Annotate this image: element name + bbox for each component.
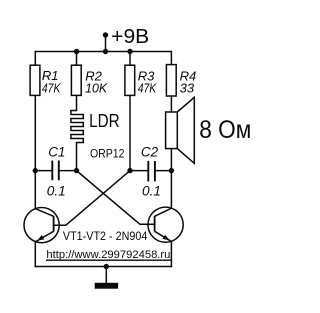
wire speaker bottom to node to VT2 collector — [170, 149, 172, 209]
svg-text:+9В: +9В — [111, 25, 149, 48]
svg-text:47K: 47K — [138, 80, 158, 95]
node rail dot R3 — [127, 49, 132, 54]
wire cross-coupling node B to VT2 base — [77, 171, 155, 225]
node rail dot +9V — [103, 49, 108, 54]
transistor Q1 VT1 emitter diagonal — [36, 231, 54, 241]
node A dot — [33, 168, 38, 173]
wire bottom ground rail — [35, 266, 171, 268]
wire VT2 emitter drop — [170, 241, 172, 266]
wire R2 top drop — [76, 52, 78, 66]
wire C2 right plate to node D — [155, 170, 172, 172]
node D dot — [169, 168, 174, 173]
url underline — [46, 259, 171, 261]
resistor R3 — [125, 65, 135, 95]
node C dot — [127, 168, 132, 173]
ground — [95, 283, 118, 289]
svg-text:0.1: 0.1 — [47, 183, 66, 198]
transistor Q2 VT2 emitter diagonal — [155, 231, 172, 241]
wire R3 bottom to node — [129, 95, 131, 170]
svg-text:33: 33 — [180, 80, 195, 95]
transistor Q2 VT2 collector diagonal — [155, 208, 172, 216]
transistor Q2 VT2 base bar — [154, 216, 156, 232]
svg-text:C2: C2 — [141, 145, 159, 160]
resistor R2 — [71, 65, 81, 95]
capacitor C2 plates — [147, 162, 149, 181]
svg-text:LDR: LDR — [89, 111, 120, 131]
resistor R1 — [30, 65, 40, 95]
transistor Q1 VT1 base bar — [53, 216, 55, 232]
wire node A to C1 left plate — [35, 170, 52, 172]
svg-text:8 Ом: 8 Ом — [199, 116, 251, 144]
node ground dot — [104, 264, 109, 269]
transistor Q2 VT2 emitter arrow — [163, 235, 170, 241]
wire R1 bottom to VT1 collector — [34, 95, 36, 208]
wire +9V stem — [105, 35, 107, 52]
node rail dot R2 — [74, 49, 79, 54]
svg-text:10K: 10K — [85, 80, 108, 95]
capacitor C1 plates — [51, 162, 53, 180]
wire VT1 emitter drop — [34, 242, 36, 267]
wire ground stem — [105, 267, 107, 284]
wire top supply rail — [35, 52, 171, 66]
svg-text:ORP12: ORP12 — [90, 147, 125, 161]
speaker LS1 body — [166, 112, 178, 149]
resistor R4 — [166, 65, 176, 96]
wire R2 bottom to LDR, LDR meander, LDR bottom to node — [71, 95, 83, 170]
wire R3 top drop — [129, 52, 131, 66]
wire R4 bottom to speaker — [170, 96, 172, 112]
svg-text:0.1: 0.1 — [142, 183, 161, 198]
transistor Q1 VT1 circle — [24, 208, 59, 243]
transistor Q1 VT1 collector diagonal — [36, 209, 54, 217]
svg-text:http://www.299792458.ru: http://www.299792458.ru — [46, 249, 170, 261]
transistor Q1 VT1 emitter arrow — [37, 235, 44, 241]
svg-text:VT1-VT2 - 2N904: VT1-VT2 - 2N904 — [63, 229, 148, 243]
svg-text:C1: C1 — [48, 145, 65, 160]
wire cross-coupling node C to VT1 base — [54, 171, 130, 226]
speaker LS1 cone — [177, 97, 194, 163]
wire node C to C2 left plate — [130, 170, 148, 172]
node supply dot at +9V terminal — [103, 32, 108, 37]
svg-text:47K: 47K — [42, 80, 62, 95]
wire C1 right plate to node B — [59, 170, 77, 172]
node B dot — [74, 168, 79, 173]
transistor Q2 VT2 circle — [148, 207, 183, 242]
